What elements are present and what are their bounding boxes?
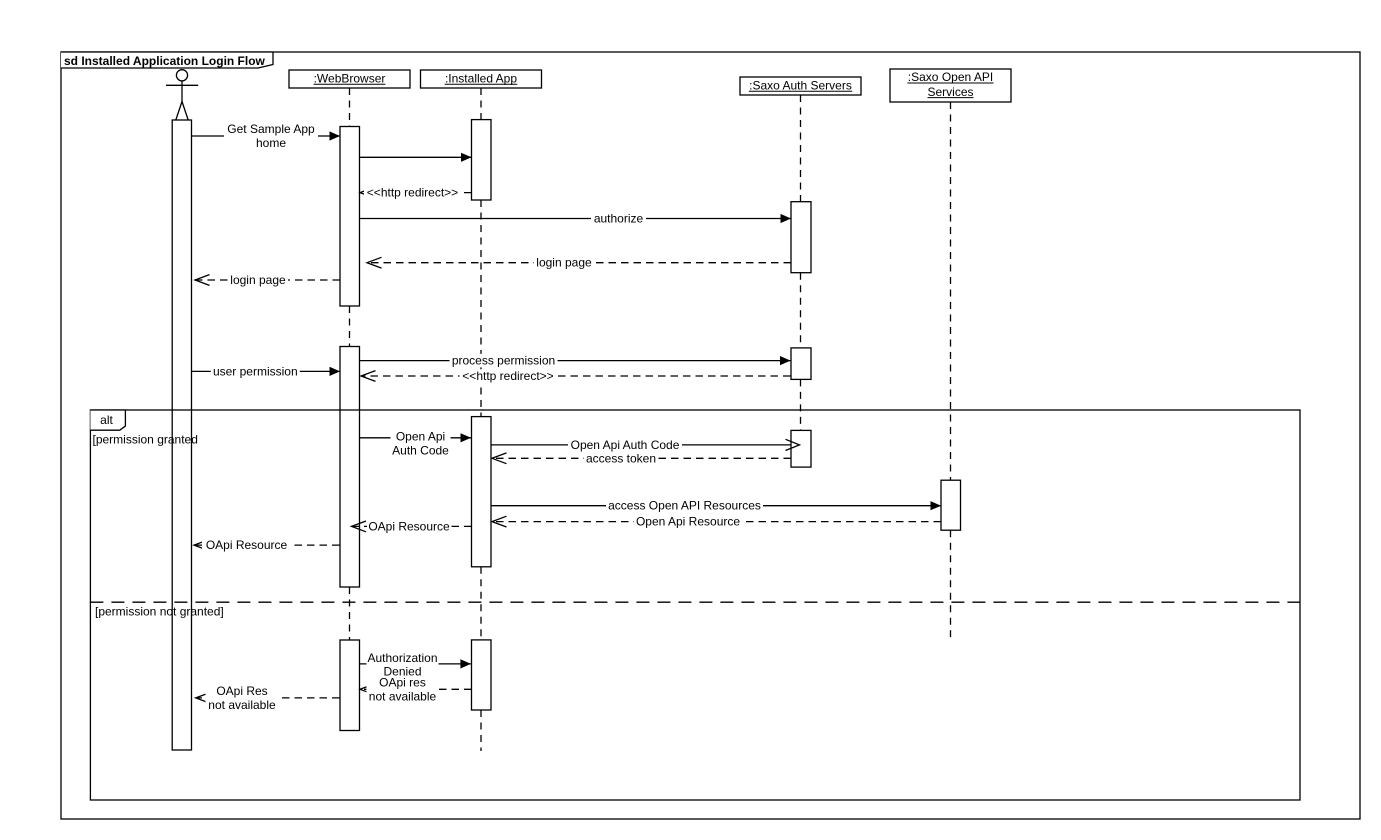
alt guard text [permission granted] xyxy=(93,433,198,447)
message: user permission (actor -> WebBrowser, solid filled arrow) xyxy=(192,364,340,378)
svg-text:not available: not available xyxy=(208,698,276,712)
lifeline header box :Saxo Auth Servers xyxy=(740,77,861,95)
message: OApi Res not available return (WebBrowser -> actor, dashed open arrow) xyxy=(196,684,340,712)
actor activation bar (long) xyxy=(172,120,191,750)
Installed App activation bar 2 xyxy=(472,417,492,567)
message: Open Api Auth Code (WebBrowser -> Installed App, solid filled arrow) xyxy=(360,430,472,458)
svg-text:[permission granted: [permission granted xyxy=(93,433,198,447)
Saxo Open API Services activation bar xyxy=(941,480,961,530)
svg-text:Authorization: Authorization xyxy=(367,651,437,665)
svg-text:access token: access token xyxy=(586,451,656,465)
message: login page return (WebBrowser -> actor, dashed open arrow) xyxy=(195,273,340,287)
Installed App activation bar 1 xyxy=(472,120,492,200)
lifeline header box :Saxo Open API Services (two lines) xyxy=(890,69,1011,102)
message: OApi res not available return (Installed App -> WebBrowser, dashed open arrow) xyxy=(360,676,472,704)
svg-text:access Open API Resources: access Open API Resources xyxy=(608,499,761,513)
message: unlabeled call (WebBrowser -> Installed App, solid filled arrow) xyxy=(360,153,472,162)
WebBrowser activation bar 1 xyxy=(340,127,360,307)
message: OApi Resource return (WebBrowser -> actor, dashed open arrow) xyxy=(194,538,340,552)
svg-text:Get Sample App: Get Sample App xyxy=(227,122,315,136)
svg-text:<<http redirect>>: <<http redirect>> xyxy=(367,186,458,200)
message: access token return (Saxo Auth Servers -> Installed App, dashed open arrow) xyxy=(492,451,791,465)
svg-text:process permission: process permission xyxy=(452,354,555,368)
alt fragment label pentagon with text 'alt' xyxy=(90,410,125,430)
Installed App lifeline dashed segments xyxy=(480,88,482,751)
svg-text:user permission: user permission xyxy=(213,364,298,378)
svg-text:OApi Res: OApi Res xyxy=(216,684,267,698)
message: <<http redirect>> return (Installed App -> WebBrowser, dashed open arrow) xyxy=(360,186,472,200)
svg-text:Open Api Resource: Open Api Resource xyxy=(636,515,740,529)
WebBrowser lifeline dashed segments xyxy=(349,88,351,640)
Saxo Auth Servers activation bar 2 xyxy=(791,348,811,380)
svg-text:OApi Resource: OApi Resource xyxy=(206,538,288,552)
Saxo Open API Services lifeline dashed segments xyxy=(950,102,952,640)
svg-text:OApi res: OApi res xyxy=(379,676,426,690)
svg-text:Services: Services xyxy=(927,85,973,99)
alt guard text [permission not granted] xyxy=(95,604,224,618)
message: <<http redirect>> return (Saxo Auth Servers -> WebBrowser, dashed open arrow) xyxy=(361,369,791,383)
svg-text::WebBrowser: :WebBrowser xyxy=(314,71,386,85)
alt divider dashed line xyxy=(90,601,1300,603)
message: Open Api Auth Code (Installed App -> Saxo Auth Servers, solid open arrow) xyxy=(491,438,800,452)
Saxo Auth Servers lifeline dashed segments xyxy=(800,95,802,430)
svg-text:not available: not available xyxy=(369,690,437,704)
svg-text:login page: login page xyxy=(230,273,286,287)
svg-text:authorize: authorize xyxy=(594,212,644,226)
svg-text:Open Api: Open Api xyxy=(396,430,445,444)
Saxo Auth Servers activation bar 1 xyxy=(791,202,811,273)
svg-text::Installed App: :Installed App xyxy=(445,71,517,85)
message: authorize (WebBrowser -> Saxo Auth Servers, solid filled arrow) xyxy=(360,212,792,226)
Installed App activation bar 3 xyxy=(472,640,492,710)
svg-text:Auth Code: Auth Code xyxy=(392,443,449,457)
lifeline header box :WebBrowser xyxy=(289,70,410,88)
Saxo Auth Servers activation bar 3 xyxy=(791,430,811,467)
svg-text:sd Installed Application Login: sd Installed Application Login Flow xyxy=(64,54,266,68)
message: access Open API Resources (Installed App -> Saxo Open API Services, solid filled arrow) xyxy=(491,499,941,513)
svg-text:[permission not granted]: [permission not granted] xyxy=(95,604,224,618)
svg-text:OApi Resource: OApi Resource xyxy=(368,519,450,533)
lifeline header box :Installed App xyxy=(421,70,542,88)
svg-text:Open Api Auth Code: Open Api Auth Code xyxy=(571,438,680,452)
WebBrowser activation bar 2 xyxy=(340,347,360,588)
svg-text::Saxo Auth Servers: :Saxo Auth Servers xyxy=(749,78,852,92)
svg-text:home: home xyxy=(256,136,286,150)
message: Open Api Resource return (Saxo Open API Services -> Installed App, dashed open arrow) xyxy=(492,515,941,529)
message: OApi Resource return (Installed App -> WebBrowser, dashed open arrow) xyxy=(352,519,472,533)
message: Authorization Denied (WebBrowser -> Installed App, solid filled arrow) xyxy=(360,651,471,679)
message: process permission (WebBrowser -> Saxo Auth Servers, solid filled arrow) xyxy=(360,354,791,368)
alt fragment border xyxy=(90,410,1300,800)
frame title pentagon and text 'sd Installed Application Login Flow' xyxy=(61,52,273,68)
message: login page return (Saxo Auth Servers -> WebBrowser, dashed open arrow) xyxy=(367,256,791,270)
svg-text::Saxo Open API: :Saxo Open API xyxy=(908,70,993,84)
message: Get Sample App home (actor -> WebBrowser, solid filled arrow) xyxy=(192,122,340,150)
svg-text:alt: alt xyxy=(100,413,113,427)
actor stick figure (User) xyxy=(166,70,198,120)
svg-text:<<http redirect>>: <<http redirect>> xyxy=(462,369,553,383)
WebBrowser activation bar 3 xyxy=(340,640,360,731)
svg-text:login page: login page xyxy=(536,256,592,270)
